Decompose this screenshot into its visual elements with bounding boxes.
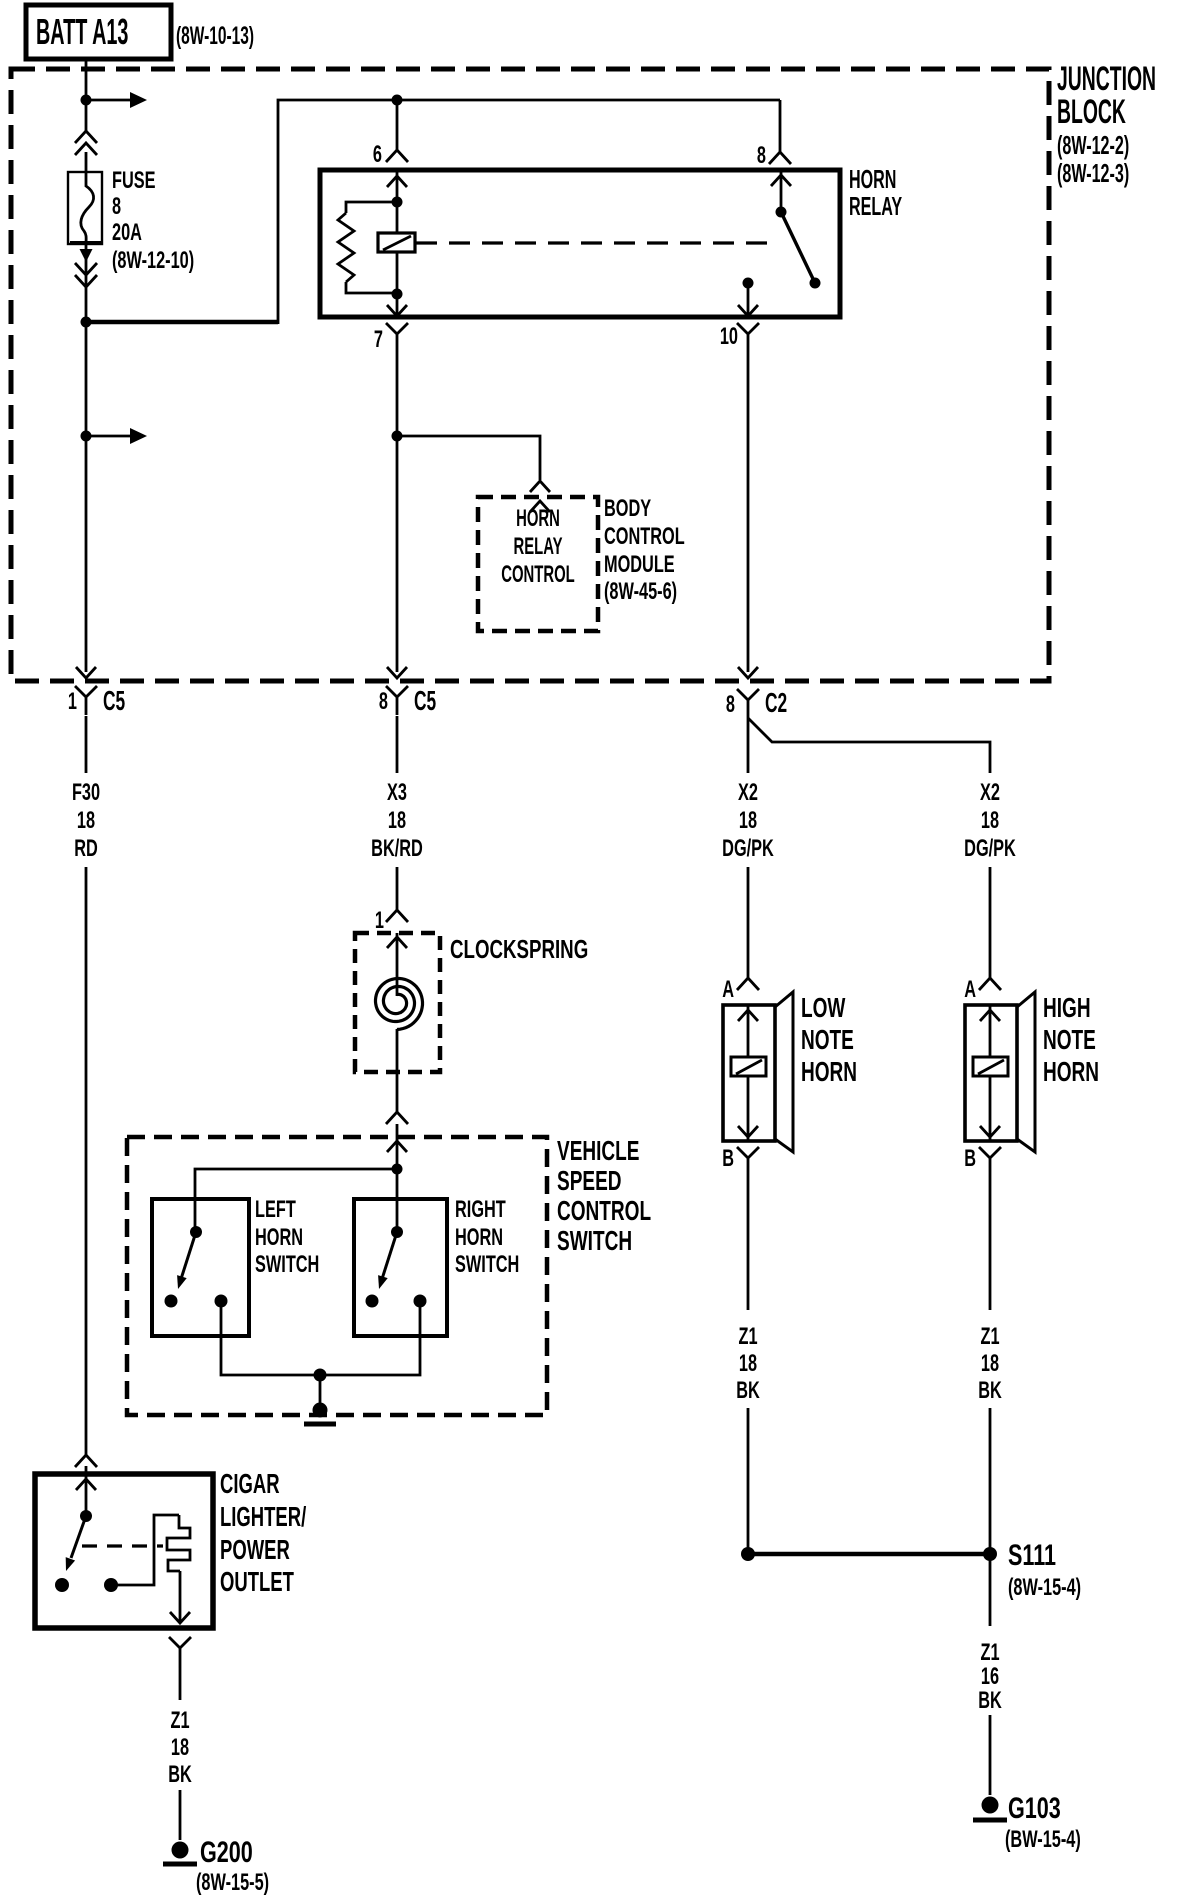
in-line connector double chevron below fuse bbox=[75, 263, 97, 275]
relay contact node pin 10 bbox=[743, 278, 754, 289]
svg-text:LEFT: LEFT bbox=[255, 1196, 296, 1223]
pin 7 connector Y bbox=[386, 323, 408, 352]
cigar switch blade bbox=[71, 1516, 86, 1558]
junction block boundary bbox=[11, 69, 1049, 681]
exit arrowhead C5 pin1 bbox=[76, 667, 96, 678]
splice bus wire to S111 bbox=[748, 1552, 990, 1557]
svg-text:VEHICLE: VEHICLE bbox=[557, 1135, 640, 1167]
low note horn flare bbox=[775, 992, 793, 1152]
node splice feeding relay pin 6 bbox=[392, 95, 403, 106]
cigar switch pivot node bbox=[80, 1510, 92, 1522]
svg-text:BODY: BODY bbox=[604, 495, 651, 522]
connector Y below cigar lighter bbox=[169, 1637, 191, 1668]
wire pin 7 to C5 and BCM branch bbox=[396, 352, 399, 672]
pin 8 connector chevron bbox=[769, 152, 791, 164]
cigar lighter / power outlet box bbox=[35, 1474, 213, 1628]
svg-text:G103: G103 bbox=[1008, 1790, 1061, 1824]
cigar switch contact bbox=[55, 1578, 69, 1592]
svg-text:(8W-12-2): (8W-12-2) bbox=[1057, 130, 1129, 160]
exit arrowhead C2 pin8 bbox=[738, 667, 758, 678]
svg-text:Z1: Z1 bbox=[980, 1639, 999, 1666]
svg-text:X3: X3 bbox=[387, 779, 407, 806]
svg-text:BATT A13: BATT A13 bbox=[36, 13, 128, 53]
node splice below fuse bbox=[81, 317, 92, 328]
coil actuator dashed link bbox=[415, 241, 437, 244]
wire Z1 from high horn B bbox=[989, 1172, 992, 1310]
svg-text:LIGHTER/: LIGHTER/ bbox=[220, 1502, 307, 1533]
relay coil top node bbox=[392, 197, 403, 208]
svg-text:8: 8 bbox=[726, 691, 735, 718]
pin 6 connector chevron bbox=[386, 150, 408, 162]
high note horn body bbox=[965, 1005, 1017, 1141]
relay coil bbox=[378, 233, 415, 252]
high note horn flare bbox=[1017, 992, 1035, 1152]
off-page arrow from left feed bbox=[81, 431, 92, 442]
wire below fuse bbox=[85, 244, 88, 322]
wire into cigar lighter switch bbox=[85, 1466, 88, 1516]
wire into fuse bbox=[85, 152, 88, 172]
left switch contact bbox=[165, 1295, 178, 1308]
wire left switch to ground splice bbox=[221, 1301, 320, 1375]
wire X3 down to clockspring bbox=[396, 867, 399, 910]
left horn switch box bbox=[152, 1199, 249, 1336]
svg-text:X2: X2 bbox=[738, 779, 758, 806]
svg-text:C5: C5 bbox=[103, 685, 125, 716]
cigar lighter heating element bbox=[167, 1515, 190, 1571]
svg-text:NOTE: NOTE bbox=[1043, 1024, 1096, 1056]
wire fuse output to horn relay supply bbox=[86, 320, 278, 325]
svg-text:18: 18 bbox=[388, 807, 406, 834]
wire X2 to low horn pin A bbox=[747, 867, 750, 978]
relay pin 6 entry wire bbox=[396, 170, 399, 233]
wire BATT A13 down into junction block bbox=[85, 59, 88, 131]
svg-text:CIGAR: CIGAR bbox=[220, 1469, 280, 1500]
svg-text:SWITCH: SWITCH bbox=[255, 1251, 319, 1278]
wire drop to relay pin 8 bbox=[779, 100, 782, 152]
clockspring coil spiral bbox=[376, 979, 423, 1030]
relay pin 10 exit arrow bbox=[747, 283, 750, 315]
off-page arrow from fuse feed bbox=[86, 99, 130, 102]
svg-text:1: 1 bbox=[375, 907, 384, 934]
wire left feed to C5 pin 1 bbox=[85, 322, 88, 672]
wire X2 branch to high note horn bbox=[748, 718, 990, 773]
svg-text:RIGHT: RIGHT bbox=[455, 1196, 506, 1223]
cigar element contact bbox=[104, 1578, 118, 1592]
left switch blade bbox=[181, 1232, 196, 1279]
wire Z1 from low horn B bbox=[747, 1172, 750, 1310]
right switch blade bbox=[382, 1232, 397, 1279]
BCM connector chevron bbox=[530, 481, 550, 492]
svg-text:18: 18 bbox=[739, 807, 757, 834]
wire right switch to ground splice bbox=[320, 1301, 420, 1375]
wire F30 down to cigar lighter bbox=[85, 867, 88, 1455]
svg-text:BK/RD: BK/RD bbox=[371, 835, 423, 862]
wire to switch ground bbox=[319, 1375, 322, 1405]
svg-text:18: 18 bbox=[77, 807, 95, 834]
wire to left horn switch bbox=[195, 1169, 397, 1232]
svg-text:8: 8 bbox=[112, 193, 121, 220]
svg-text:BK: BK bbox=[736, 1377, 760, 1404]
svg-text:BK: BK bbox=[168, 1761, 192, 1788]
svg-text:10: 10 bbox=[720, 323, 738, 350]
svg-text:BK: BK bbox=[978, 1687, 1002, 1714]
relay coil bottom node bbox=[392, 289, 403, 300]
svg-text:6: 6 bbox=[373, 141, 382, 168]
svg-text:MODULE: MODULE bbox=[604, 551, 675, 578]
high note horn coil bbox=[973, 1057, 1008, 1076]
wire resistor bottom bbox=[346, 282, 397, 293]
wire X2 from C2-8 down bbox=[747, 718, 750, 773]
splice node left of S111 bbox=[741, 1547, 755, 1561]
wire to ground G200 bbox=[179, 1790, 182, 1840]
fuse 8 20A bbox=[68, 172, 102, 244]
right horn switch box bbox=[354, 1199, 447, 1336]
wire into clockspring coil bbox=[396, 933, 399, 996]
svg-text:B: B bbox=[964, 1145, 976, 1172]
wire X2 to high horn pin A bbox=[989, 867, 992, 978]
svg-text:SWITCH: SWITCH bbox=[455, 1251, 519, 1278]
clockspring box bbox=[355, 933, 440, 1072]
svg-text:HORN: HORN bbox=[516, 506, 560, 532]
arrowhead below fuse bbox=[80, 249, 93, 262]
ground symbol (switch) bbox=[313, 1403, 328, 1418]
svg-text:HORN: HORN bbox=[1043, 1056, 1099, 1088]
svg-text:20A: 20A bbox=[112, 219, 142, 246]
svg-text:18: 18 bbox=[981, 807, 999, 834]
svg-text:RELAY: RELAY bbox=[513, 534, 562, 560]
svg-text:(8W-12-10): (8W-12-10) bbox=[112, 247, 194, 274]
wire to ground G103 bbox=[989, 1715, 992, 1795]
relay pin 7 exit arrow bbox=[396, 294, 399, 315]
svg-text:(BW-15-4): (BW-15-4) bbox=[1005, 1826, 1081, 1853]
connector chevron above cigar lighter bbox=[75, 1455, 97, 1467]
svg-text:X2: X2 bbox=[980, 779, 1000, 806]
svg-text:RD: RD bbox=[74, 835, 98, 862]
svg-text:Z1: Z1 bbox=[980, 1323, 999, 1350]
in-line connector double chevron above fuse bbox=[75, 131, 97, 143]
wire Z1 high horn to splice S111 bbox=[989, 1408, 992, 1548]
svg-text:A: A bbox=[722, 976, 734, 1003]
pin 10 connector Y bbox=[737, 323, 759, 352]
svg-text:SPEED: SPEED bbox=[557, 1165, 622, 1197]
wire Z1 low horn to splice S111 bbox=[747, 1408, 750, 1548]
wire drop to relay pin 6 bbox=[396, 100, 399, 150]
exit arrowhead C5 pin8 bbox=[387, 667, 407, 678]
resistor (relay suppression) bbox=[338, 213, 354, 282]
svg-text:C2: C2 bbox=[765, 687, 787, 718]
svg-text:(8W-15-5): (8W-15-5) bbox=[196, 1869, 269, 1896]
node splice at fuse feed bbox=[81, 95, 92, 106]
svg-text:B: B bbox=[722, 1145, 734, 1172]
svg-text:HORN: HORN bbox=[801, 1056, 857, 1088]
svg-text:HORN: HORN bbox=[849, 164, 896, 194]
splice S111 bbox=[983, 1547, 997, 1561]
wire Z1 from cigar lighter bbox=[179, 1668, 182, 1700]
left switch pivot node bbox=[190, 1226, 202, 1238]
wire F30 from C5-1 bbox=[85, 716, 88, 773]
svg-text:G200: G200 bbox=[200, 1834, 253, 1868]
wire pin 10 to C2 bbox=[747, 352, 750, 672]
node splice to both horn switches bbox=[392, 1164, 403, 1175]
right switch output contact bbox=[414, 1295, 427, 1308]
clockspring pin 1 chevron bbox=[386, 910, 408, 922]
svg-text:RELAY: RELAY bbox=[849, 191, 903, 221]
relay switch pivot node bbox=[776, 207, 787, 218]
svg-text:SWITCH: SWITCH bbox=[557, 1225, 632, 1257]
wire into vehicle speed control switch bbox=[396, 1124, 399, 1169]
svg-text:18: 18 bbox=[739, 1350, 757, 1377]
left switch output contact bbox=[215, 1295, 228, 1308]
low note horn coil bbox=[731, 1057, 766, 1076]
right switch contact bbox=[366, 1295, 379, 1308]
svg-text:HORN: HORN bbox=[255, 1224, 303, 1251]
wire Z1 16 BK from S111 bbox=[989, 1560, 992, 1626]
svg-text:7: 7 bbox=[374, 326, 383, 353]
svg-text:C5: C5 bbox=[414, 685, 436, 716]
svg-text:8: 8 bbox=[379, 688, 388, 715]
ground G103 bbox=[982, 1797, 999, 1814]
node splice to BCM bbox=[392, 431, 403, 442]
vehicle speed control switch box bbox=[127, 1137, 547, 1415]
svg-text:1: 1 bbox=[68, 688, 77, 715]
svg-text:(8W-15-4): (8W-15-4) bbox=[1008, 1574, 1081, 1601]
high note horn pin A chevron bbox=[979, 978, 1001, 990]
svg-text:16: 16 bbox=[981, 1663, 999, 1690]
svg-text:S111: S111 bbox=[1008, 1537, 1056, 1571]
svg-text:BK: BK bbox=[978, 1377, 1002, 1404]
svg-text:CONTROL: CONTROL bbox=[604, 523, 685, 550]
wire out of clockspring bbox=[396, 1029, 399, 1112]
switch ground splice node bbox=[314, 1369, 327, 1382]
svg-text:8: 8 bbox=[757, 142, 766, 169]
relay pin 8 entry wire bbox=[780, 170, 783, 212]
wire coil to pin 7 bbox=[396, 252, 399, 294]
svg-text:NOTE: NOTE bbox=[801, 1024, 854, 1056]
svg-text:Z1: Z1 bbox=[738, 1323, 757, 1350]
svg-text:DG/PK: DG/PK bbox=[722, 835, 774, 862]
wire to right horn switch bbox=[396, 1169, 399, 1232]
svg-text:CLOCKSPRING: CLOCKSPRING bbox=[450, 934, 588, 964]
svg-text:18: 18 bbox=[981, 1350, 999, 1377]
wire contact to heating element bbox=[111, 1515, 179, 1585]
svg-text:HORN: HORN bbox=[455, 1224, 503, 1251]
relay switch blade bbox=[781, 212, 815, 283]
svg-text:(8W-12-3): (8W-12-3) bbox=[1057, 158, 1129, 188]
svg-text:DG/PK: DG/PK bbox=[964, 835, 1016, 862]
svg-text:BLOCK: BLOCK bbox=[1057, 92, 1126, 130]
wire to body control module bbox=[397, 436, 540, 480]
svg-text:Z1: Z1 bbox=[170, 1707, 189, 1734]
svg-text:(8W-10-13): (8W-10-13) bbox=[176, 22, 254, 50]
svg-text:(8W-45-6): (8W-45-6) bbox=[604, 578, 677, 605]
wire X3 from C5-8 bbox=[396, 716, 399, 773]
svg-text:F30: F30 bbox=[72, 779, 100, 806]
svg-text:18: 18 bbox=[171, 1734, 189, 1761]
svg-text:POWER: POWER bbox=[220, 1535, 290, 1566]
right switch pivot node bbox=[391, 1226, 403, 1238]
battery feed box BATT A13 bbox=[26, 5, 171, 59]
connector chevron below clockspring bbox=[386, 1112, 408, 1124]
svg-text:FUSE: FUSE bbox=[112, 167, 156, 194]
actuator dashed link bbox=[82, 1544, 163, 1547]
body control module box bbox=[478, 497, 598, 631]
wire element to pin B bbox=[179, 1571, 182, 1622]
horn relay box bbox=[320, 170, 840, 317]
svg-text:HIGH: HIGH bbox=[1043, 992, 1091, 1024]
svg-text:A: A bbox=[964, 976, 976, 1003]
svg-text:OUTLET: OUTLET bbox=[220, 1567, 294, 1598]
wire to resistor bbox=[346, 202, 397, 213]
svg-text:LOW: LOW bbox=[801, 992, 846, 1024]
ground G200 bbox=[172, 1842, 189, 1859]
low note horn pin A chevron bbox=[737, 978, 759, 990]
svg-text:CONTROL: CONTROL bbox=[501, 562, 575, 588]
low note horn body bbox=[723, 1005, 775, 1141]
svg-text:CONTROL: CONTROL bbox=[557, 1195, 651, 1227]
